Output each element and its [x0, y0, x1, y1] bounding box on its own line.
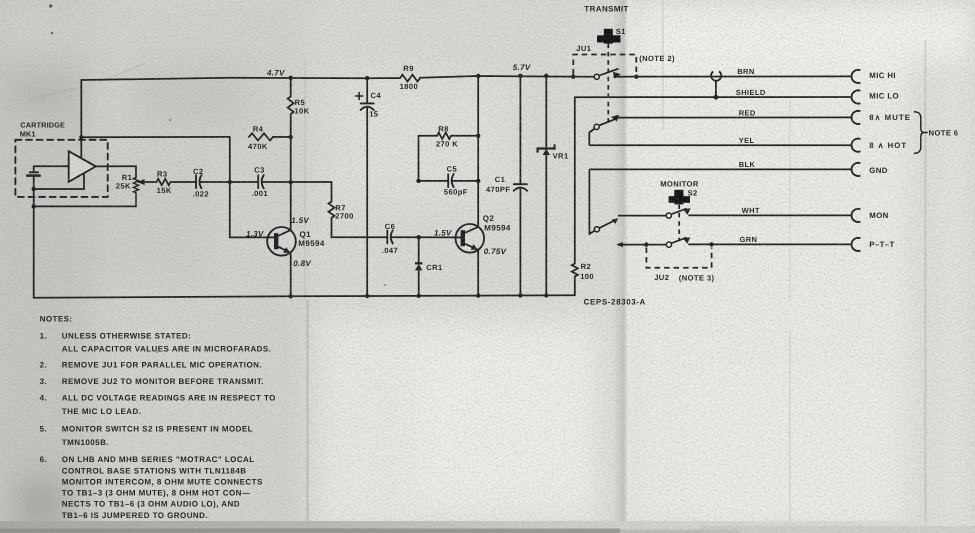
node JU1 left on wire [571, 75, 575, 79]
terminal hook GND [852, 163, 861, 176]
wire amp output to R1 top [96, 166, 136, 177]
wire bottom ground rail [34, 295, 575, 298]
transistor Q1 [267, 227, 296, 256]
terminal hook 8 MUTE [852, 111, 861, 124]
switch S1 pole2 arrow [611, 115, 619, 122]
switch S2 gnd blade [599, 220, 615, 228]
resistor R7 (vertical) [329, 202, 335, 218]
resistor R9 on top rail [400, 75, 420, 82]
wire collector to R7 corner [291, 182, 332, 202]
wire YEL line [589, 144, 851, 146]
node C2/C3 junction [228, 180, 232, 184]
wire RED line [617, 116, 852, 118]
wire Q1 emitter to rail [290, 253, 292, 296]
wire CR1 vertical [418, 237, 420, 296]
switch S2 GRN blade [671, 238, 686, 244]
wire R8 right [451, 135, 478, 137]
resistor R2 vertical with corners [572, 97, 578, 295]
wire pole2 bend to YEL [589, 129, 594, 146]
wire R3 to C2 [171, 181, 197, 183]
resistor R8 [437, 133, 451, 139]
wire Q2 emitter to rail [477, 250, 479, 296]
crease line x790 [789, 330, 791, 533]
node JU2 left [644, 242, 648, 246]
switch S1 contact circle [594, 74, 599, 79]
crease line x925 [925, 40, 927, 533]
zener VR1 vertical [545, 76, 547, 296]
switch S2 pushbutton cross [669, 190, 690, 205]
crease line x663 top [662, 0, 664, 130]
wire WHT line [688, 214, 851, 216]
node Q2 collector top [476, 74, 480, 78]
capacitor C1 on vertical [519, 76, 521, 184]
wire left drop to ground rail [33, 206, 35, 297]
terminal hook P-T-T [852, 238, 861, 251]
node R8 left [416, 179, 420, 183]
wire R4 box left vertical [229, 137, 231, 182]
wire cartridge top vertical [80, 80, 82, 160]
switch S2 gnd blade arrow [612, 218, 619, 224]
connector hooks [852, 70, 861, 251]
wire GRN line [688, 243, 851, 245]
resistor R1 (vertical element) [134, 178, 139, 207]
wire BLK drop to S2 stationary [589, 169, 594, 234]
wire GRN arrow left end [616, 242, 623, 247]
wire SHIELD line [575, 96, 852, 98]
wire R8 branch [419, 136, 438, 181]
switch S2 gnd contact circle [594, 227, 599, 232]
jumper JU2 dashed box [646, 248, 711, 268]
R1 wiper arrow [137, 179, 144, 185]
wire base drop to Q1 [230, 182, 267, 237]
switch S2 WHT blade [671, 209, 686, 215]
terminal hook MON [852, 209, 861, 222]
switch S1 pole2 contact circle [594, 124, 599, 129]
wire element bottom to amp lower lead [34, 172, 84, 189]
wire S2 dashed actuator stem [678, 205, 680, 240]
wire R1 wiper to R3 [139, 181, 157, 183]
capacitor C6 plates [386, 231, 388, 244]
jumper JU1 dashed box [573, 55, 636, 75]
wire element node down to loop bottom [33, 189, 35, 206]
terminal hook MIC LO [852, 90, 861, 103]
capacitor C4 on vertical with + [366, 78, 368, 103]
wire R7 bottom corner to C6 [332, 218, 388, 237]
node loop bottom junction [32, 204, 36, 208]
wire C2 to node [200, 181, 230, 183]
node C3/collector junction [289, 180, 293, 184]
wire WHT left segment [618, 215, 666, 217]
wire GRN left segment [618, 244, 666, 246]
switch S2 WHT arrow [683, 208, 690, 215]
node C6/CR1 junction [417, 235, 421, 239]
switch S2 GRN contact circle [666, 242, 671, 247]
node rail top R5 [289, 76, 293, 80]
node C5 right [476, 179, 480, 183]
switch S1 pole2 blade [599, 119, 615, 125]
wire C6 to node [391, 236, 418, 238]
wire feedback/base line y137 [81, 136, 230, 138]
wire C5 right [452, 180, 478, 182]
node S1 right [634, 75, 638, 79]
dark specks top-left [49, 4, 52, 7]
node shield junction [714, 95, 719, 100]
wire collector vertical Q1 [290, 137, 292, 230]
node C1 top [518, 74, 522, 78]
notes block [40, 314, 276, 519]
shield loop around BRN [711, 71, 721, 80]
wire node to Q2 base [419, 236, 456, 238]
paper fold shadow/highlight at main crease [613, 0, 639, 533]
resistor R5 (vertical) [288, 78, 294, 137]
wire R1 bottom loop [34, 205, 136, 207]
wire BLK line [589, 168, 851, 170]
wire MIC HI line [614, 75, 852, 77]
wire C3 to collector vertical [262, 181, 291, 183]
node element/bottom junction [32, 187, 36, 191]
zener diode VR1 [538, 144, 555, 155]
resistor R4 [249, 133, 273, 140]
cartridge MK1 dashed enclosure [15, 140, 107, 197]
terminal hook MIC HI [852, 70, 861, 83]
wire C5 branch left [419, 180, 449, 182]
wire Q2 collector vertical [477, 76, 479, 227]
op-amp cartridge amplifier triangle [69, 151, 96, 182]
node R4/R5 junction [289, 135, 293, 139]
wire element top stub to amp input [34, 166, 69, 172]
node C4 top [365, 76, 369, 80]
node tee of feedback wire into cartridge vertical [79, 135, 83, 139]
wire node to C3 [230, 181, 258, 183]
switch S2 WHT contact circle [666, 213, 671, 218]
node R8 right [476, 134, 480, 138]
wire shield drop [715, 81, 717, 97]
crease line x308 lower [307, 300, 309, 533]
node VR1 top [544, 74, 548, 78]
switch S2 GRN arrow [683, 237, 690, 244]
wire R4 right to junction [273, 136, 291, 138]
wire 4.7V top rail [81, 76, 594, 80]
paper bottom gray band [0, 521, 975, 533]
top-left diagonal crease [100, 63, 145, 82]
switch S1 arrow on wire end [613, 72, 621, 79]
capacitor C5 plates [447, 174, 449, 187]
diode CR1 [415, 263, 423, 270]
terminal hook 8 HOT [852, 139, 861, 152]
microphone element plates [26, 172, 41, 175]
capacitor C2 plates [195, 175, 197, 188]
wire S1 dashed actuator stem [607, 44, 609, 124]
capacitor C3 plates [257, 175, 259, 188]
switch S1 pushbutton cross [597, 29, 621, 44]
node JU2 right [709, 242, 713, 246]
switch S1 blade [599, 69, 618, 76]
resistor R3 [157, 179, 171, 185]
NOTE 6 bracket [914, 112, 928, 154]
node rail bottom dots [289, 293, 549, 298]
transistor Q2 [456, 224, 485, 253]
